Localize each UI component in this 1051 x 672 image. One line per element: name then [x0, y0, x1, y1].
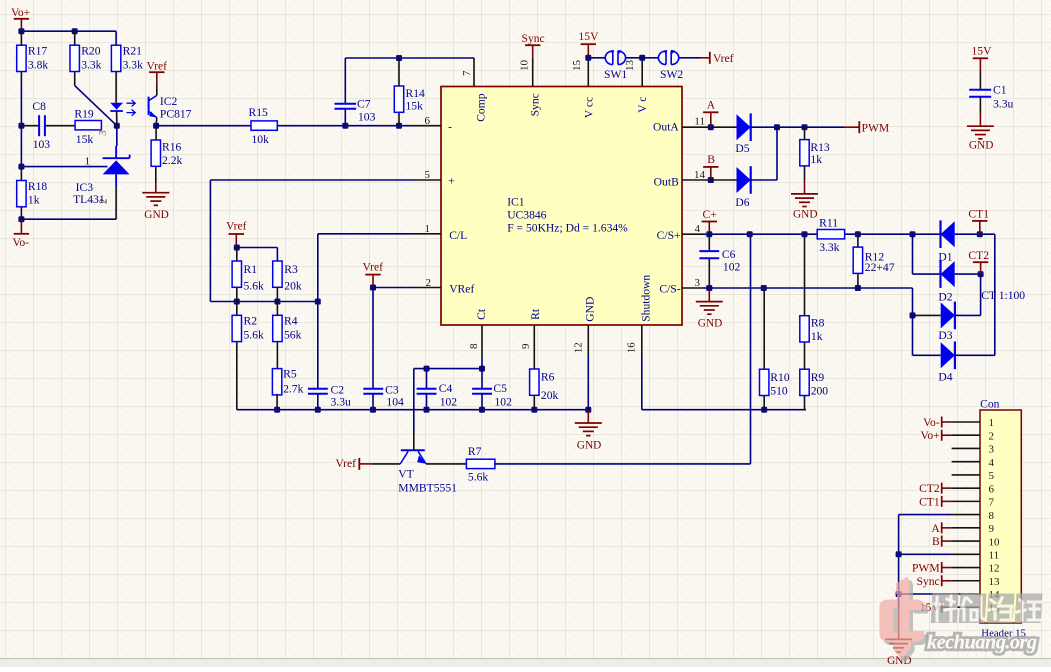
wire vref to R3 top	[237, 248, 278, 262]
svg-text:PWM: PWM	[862, 122, 890, 135]
power port 15V header pin 15	[920, 601, 952, 614]
junction	[531, 407, 537, 413]
resistor R9	[800, 369, 809, 395]
svg-text:D3: D3	[938, 329, 952, 342]
header pin 4 stub	[952, 461, 980, 463]
junction	[978, 271, 984, 277]
power port C+	[702, 208, 717, 234]
wire header gnd stem	[898, 594, 900, 612]
svg-text:22+47: 22+47	[865, 261, 895, 274]
svg-text:C/S+: C/S+	[657, 229, 681, 242]
pin 13 stub	[641, 58, 643, 87]
power port PWM	[859, 121, 889, 134]
svg-text:102: 102	[723, 261, 741, 274]
svg-text:R19: R19	[74, 107, 94, 120]
resistor R20	[70, 45, 79, 71]
capacitor C1	[969, 90, 991, 97]
R2 leads	[236, 302, 238, 410]
power port 15V right	[972, 45, 993, 59]
power port Vo+	[11, 6, 30, 31]
power port A header pin 9	[931, 522, 951, 535]
R6 leads	[533, 355, 535, 410]
wire LED cathode to TL431	[116, 126, 118, 146]
D5 anode lead	[711, 126, 737, 128]
svg-text:102: 102	[495, 395, 513, 408]
svg-text:1k: 1k	[28, 194, 40, 207]
wire D3-D4 link	[913, 315, 941, 355]
junction	[910, 312, 916, 318]
pin 12 stub	[587, 325, 589, 355]
power port Vref top	[710, 52, 734, 65]
header pin 9 stub	[952, 527, 980, 529]
VT base wire	[372, 463, 400, 465]
svg-text:5: 5	[989, 470, 995, 482]
svg-text:R14: R14	[406, 87, 426, 100]
switch SW2	[658, 51, 678, 65]
junction	[896, 551, 902, 557]
R4-R5 link	[276, 302, 278, 369]
header pin 15 stub	[952, 606, 980, 608]
pin 10 stub	[532, 58, 534, 87]
svg-text:15k: 15k	[76, 133, 94, 146]
pin 3 stub	[682, 287, 703, 289]
resistor R10	[760, 369, 769, 395]
svg-text:GND: GND	[577, 439, 601, 451]
header pin 1 stub	[952, 421, 980, 423]
svg-text:3: 3	[989, 444, 995, 456]
svg-text:GND: GND	[698, 318, 722, 330]
watermark kechuang.org logo	[880, 577, 1043, 664]
svg-text:Comp: Comp	[475, 93, 488, 122]
R16 leads	[155, 126, 157, 183]
transistor IC3 TL431 symbol	[103, 146, 130, 186]
junction	[761, 285, 767, 291]
resistor R14	[394, 86, 403, 112]
svg-text:R15: R15	[249, 106, 269, 119]
ground GND below C6	[696, 302, 723, 330]
diode D4	[941, 342, 955, 370]
svg-text:15: 15	[571, 60, 583, 72]
resistor R6	[530, 369, 539, 395]
power port B	[703, 153, 718, 180]
svg-text:Vo+: Vo+	[920, 429, 939, 442]
R21 leads	[115, 72, 117, 103]
power port Vo- header pin 1	[923, 416, 951, 429]
junction	[855, 285, 861, 291]
wire C7 bottom	[344, 109, 346, 126]
header pin 11 stub	[952, 553, 980, 555]
junction	[274, 407, 280, 413]
TL431 anode lead	[115, 186, 117, 219]
VT emitter wire	[426, 463, 466, 465]
wire R15 to pin6	[277, 125, 412, 127]
wire divider bus	[210, 301, 317, 303]
wire comp top	[345, 58, 474, 104]
pin 15 stub	[587, 58, 589, 87]
header pin 6 stub	[952, 487, 980, 489]
resistor R16	[151, 140, 160, 166]
ground GND below R16	[142, 193, 169, 221]
svg-text:2.2k: 2.2k	[162, 154, 182, 167]
junction	[18, 123, 24, 129]
pin 11 stub	[682, 126, 711, 128]
svg-text:C6: C6	[722, 248, 736, 261]
svg-text:IC3: IC3	[76, 181, 94, 194]
svg-text:10: 10	[519, 60, 531, 72]
svg-text:R17: R17	[28, 45, 48, 58]
svg-text:12: 12	[989, 563, 1000, 575]
junction	[18, 216, 24, 222]
svg-text:16: 16	[626, 342, 638, 354]
svg-text:13: 13	[989, 576, 1001, 588]
svg-text:3: 3	[695, 277, 701, 289]
svg-text:A: A	[931, 522, 940, 535]
junction	[370, 407, 376, 413]
svg-text:2: 2	[989, 430, 995, 442]
svg-text:Vo+: Vo+	[11, 6, 30, 19]
wire header pin14	[899, 593, 952, 595]
svg-text:CT 1:100: CT 1:100	[981, 289, 1025, 302]
wire ground bus	[237, 409, 589, 411]
svg-text:VRef: VRef	[449, 282, 474, 295]
ground GND top right	[967, 126, 994, 151]
header pin 13 stub	[952, 580, 980, 582]
wire C5 bottom lead	[481, 394, 483, 410]
connector Con header body	[980, 410, 1021, 623]
svg-text:20k: 20k	[284, 279, 302, 292]
svg-text:Vo-: Vo-	[923, 416, 940, 429]
svg-text:7: 7	[989, 497, 995, 509]
junction	[234, 299, 240, 305]
C6 bottom lead	[708, 258, 710, 288]
wire D1-D2 link	[913, 234, 941, 274]
svg-text:SW1: SW1	[604, 68, 627, 81]
capacitor C4	[417, 389, 437, 394]
junction	[315, 407, 321, 413]
wire C1 to GND	[979, 97, 981, 113]
svg-text:R10: R10	[770, 371, 790, 384]
svg-text:+: +	[448, 175, 455, 188]
wire Vo- stem	[20, 219, 22, 234]
header pin 14 stub	[952, 593, 980, 595]
wire C5 top lead	[481, 369, 483, 388]
R18 leads	[20, 167, 22, 220]
junction	[424, 407, 430, 413]
svg-text:Vref: Vref	[226, 220, 247, 233]
svg-text:Sync: Sync	[917, 575, 940, 588]
wire pin12 to bus	[587, 355, 589, 410]
junction	[424, 366, 430, 372]
svg-text:5.6k: 5.6k	[244, 328, 264, 341]
junction	[342, 123, 348, 129]
svg-text:OutA: OutA	[653, 121, 679, 134]
ground GND main bus	[575, 423, 602, 451]
svg-text:1k: 1k	[810, 153, 822, 166]
wire R11 to D1	[845, 233, 941, 235]
svg-text:2.7k: 2.7k	[283, 382, 303, 395]
svg-text:14: 14	[694, 169, 706, 181]
header pin 5 stub	[952, 474, 980, 476]
svg-text:R2: R2	[244, 315, 258, 328]
wire R17 to C8 row	[20, 86, 22, 126]
svg-text:B: B	[932, 535, 940, 548]
junction	[855, 231, 861, 237]
svg-text:1k: 1k	[811, 330, 823, 343]
wire header pin8	[899, 515, 952, 555]
diode D1	[941, 220, 955, 248]
junction	[114, 123, 120, 129]
svg-text:Con: Con	[980, 398, 1000, 411]
svg-text:Sync: Sync	[522, 32, 545, 45]
wire D1 to CT1	[955, 233, 995, 235]
header pin 7 stub	[952, 500, 980, 502]
resistor R5	[272, 369, 281, 395]
R8-R9 link	[804, 342, 806, 369]
junction	[774, 124, 780, 130]
svg-text:A: A	[707, 99, 716, 112]
svg-text:R20: R20	[81, 45, 101, 58]
svg-text:D4: D4	[938, 370, 952, 383]
junction	[761, 407, 767, 413]
resistor R12	[853, 247, 862, 273]
svg-text:R16: R16	[162, 140, 182, 153]
header pin 3 stub	[952, 447, 980, 449]
header pin 10 stub	[952, 540, 980, 542]
svg-text:V c: V c	[636, 97, 649, 113]
C8 leads	[21, 125, 75, 127]
svg-text:4: 4	[989, 457, 995, 469]
svg-text:R6: R6	[541, 371, 555, 384]
svg-text:C4: C4	[439, 382, 453, 395]
R1 leads	[236, 248, 238, 302]
junction	[639, 55, 645, 61]
R14 leads	[398, 58, 400, 126]
wire header pin11	[899, 554, 952, 594]
svg-text:3.3k: 3.3k	[819, 241, 839, 254]
wire R7 to shutdown column	[495, 234, 751, 464]
junction	[977, 231, 983, 237]
svg-text:R1: R1	[244, 263, 258, 276]
wire D4 to CT right	[955, 354, 995, 356]
resistor R19	[75, 121, 101, 130]
diode D5	[737, 113, 751, 141]
wire SW2 to Vref	[679, 57, 700, 59]
svg-text:R9: R9	[811, 371, 825, 384]
svg-text:CT1: CT1	[968, 208, 989, 221]
wire 15V to C1	[979, 58, 981, 71]
svg-text:R3: R3	[284, 263, 298, 276]
svg-text:GND: GND	[144, 209, 168, 221]
IC2 collector lead	[156, 85, 158, 95]
wire D5 to PWM node	[751, 126, 844, 128]
optocoupler IC2 arrows	[127, 100, 136, 116]
svg-text:3.3k: 3.3k	[81, 58, 101, 71]
svg-text:V cc: V cc	[583, 97, 596, 118]
svg-text:8: 8	[468, 343, 480, 349]
power port Vref opto	[147, 59, 168, 85]
svg-text:3.3u: 3.3u	[331, 395, 351, 408]
wire pin8 to node	[481, 355, 483, 369]
svg-text:GND: GND	[584, 297, 597, 322]
R17 leads	[20, 31, 22, 86]
svg-text:1: 1	[85, 155, 91, 167]
wire pin1 row	[318, 234, 413, 302]
svg-text:200: 200	[811, 384, 829, 397]
diode D3	[941, 302, 955, 330]
svg-text:Ct: Ct	[475, 308, 488, 320]
pin 14 stub	[682, 179, 711, 181]
svg-text:kechuang.org: kechuang.org	[927, 632, 1037, 654]
optocoupler IC2 LED	[110, 103, 123, 126]
switch SW1	[605, 51, 625, 65]
wire C2 top lead	[317, 302, 319, 389]
svg-text:15V: 15V	[972, 45, 993, 58]
wire C2 bottom lead	[317, 394, 319, 410]
power port Vref pin2	[363, 261, 384, 288]
svg-text:104: 104	[386, 395, 404, 408]
wire pin16 down	[642, 356, 806, 410]
svg-text:11: 11	[694, 115, 705, 127]
R10 leads	[763, 288, 765, 410]
svg-text:C/L: C/L	[449, 229, 467, 242]
svg-text:CT2: CT2	[968, 249, 989, 262]
svg-text:R11: R11	[819, 216, 838, 229]
wire C3 top lead	[372, 288, 374, 389]
svg-text:103: 103	[358, 111, 376, 124]
junction	[479, 366, 485, 372]
svg-text:F = 50KHz; Dd = 1.634%: F = 50KHz; Dd = 1.634%	[507, 221, 628, 234]
svg-text:CT2: CT2	[919, 482, 940, 495]
svg-text:Rt: Rt	[529, 308, 542, 320]
R9 leads	[804, 396, 806, 410]
resistor R3	[273, 261, 282, 287]
VT collector pin	[413, 432, 415, 450]
svg-text:IC2: IC2	[160, 95, 178, 108]
junction	[396, 123, 402, 129]
power port CT1 header pin 7	[919, 495, 952, 508]
ground GND below R13	[791, 194, 818, 221]
power port Vo+ header pin 2	[920, 429, 951, 442]
svg-text:SW2: SW2	[660, 68, 683, 81]
resistor R8	[800, 316, 809, 342]
power port CT1	[968, 208, 989, 235]
transistor VT MMBT5551	[400, 450, 426, 464]
svg-text:510: 510	[770, 384, 788, 397]
svg-text:102: 102	[440, 395, 458, 408]
wire pin4 bus	[703, 233, 817, 235]
resistor R17	[17, 45, 26, 71]
svg-text:7: 7	[461, 70, 473, 76]
resistor R1	[232, 261, 241, 287]
svg-text:IC1: IC1	[507, 196, 525, 209]
wire TL431 anode to Vo-	[21, 218, 116, 220]
svg-text:20k: 20k	[541, 389, 559, 402]
svg-text:6: 6	[989, 483, 995, 495]
power port A	[703, 99, 718, 128]
resistor R7	[466, 459, 495, 468]
svg-text:Vref: Vref	[336, 457, 357, 470]
R12 leads	[857, 234, 859, 288]
capacitor C6	[699, 251, 719, 258]
R3 bottom lead	[276, 287, 278, 302]
svg-text:Vref: Vref	[713, 52, 734, 65]
power port Sync header pin 13	[917, 575, 952, 588]
diode D2	[941, 260, 955, 288]
wire PWM lead	[844, 126, 859, 128]
resistor R11	[817, 230, 844, 239]
resistor R18	[17, 181, 26, 207]
svg-text:PC817: PC817	[160, 108, 192, 121]
svg-text:5.6k: 5.6k	[244, 279, 264, 292]
junction	[708, 177, 714, 183]
svg-text:3.3k: 3.3k	[123, 58, 143, 71]
wire SW1 to SW2	[626, 57, 658, 59]
svg-text:3: 3	[98, 131, 109, 136]
wire D6 to node	[751, 127, 777, 180]
svg-text:Vo-: Vo-	[13, 236, 30, 249]
junction	[708, 124, 714, 130]
pin 16 stub	[641, 325, 643, 356]
svg-text:C8: C8	[32, 100, 46, 113]
svg-text:3.8k: 3.8k	[28, 58, 48, 71]
wire ref row	[21, 126, 107, 167]
svg-text:15V: 15V	[579, 30, 600, 43]
power port Vo-	[13, 234, 30, 249]
header pin 8 stub	[952, 514, 980, 516]
svg-text:Shutdown: Shutdown	[640, 275, 653, 322]
capacitor C7	[335, 104, 357, 109]
svg-text:D5: D5	[735, 142, 749, 155]
junction	[747, 231, 753, 237]
power port PWM header pin 12	[912, 562, 952, 575]
junction	[585, 55, 591, 61]
power port Vref VT	[336, 457, 373, 470]
wire pin3 bus	[703, 288, 913, 315]
junction	[274, 299, 280, 305]
optocoupler IC2 phototransistor	[149, 95, 157, 117]
svg-text:R4: R4	[284, 315, 298, 328]
junction	[18, 164, 24, 170]
svg-text:MMBT5551: MMBT5551	[398, 482, 457, 495]
power port 15V top	[579, 30, 600, 58]
svg-text:C+: C+	[703, 208, 717, 221]
capacitor C3	[363, 389, 383, 394]
svg-text:R18: R18	[28, 180, 48, 193]
pin 2 stub	[413, 287, 442, 289]
pin 4 stub	[682, 233, 703, 235]
wire C6 GND stem	[708, 288, 710, 302]
junction	[396, 55, 402, 61]
svg-text:R21: R21	[123, 45, 143, 58]
wire R13 GND stem	[804, 180, 806, 194]
junction	[706, 285, 712, 291]
power port Sync	[522, 32, 545, 58]
svg-text:R8: R8	[811, 317, 825, 330]
header pin 12 stub	[952, 567, 980, 569]
capacitor C5	[472, 389, 492, 394]
junction	[234, 245, 240, 251]
wire GND stem pin12	[587, 410, 589, 423]
svg-text:R7: R7	[468, 445, 482, 458]
svg-text:C5: C5	[493, 382, 507, 395]
pin 8 stub	[481, 325, 483, 355]
junction	[72, 28, 78, 34]
svg-text:C1: C1	[993, 84, 1007, 97]
wire Vref top lead	[700, 57, 710, 59]
resistor R21	[111, 45, 120, 71]
junction	[370, 285, 376, 291]
svg-text:10k: 10k	[252, 133, 270, 146]
